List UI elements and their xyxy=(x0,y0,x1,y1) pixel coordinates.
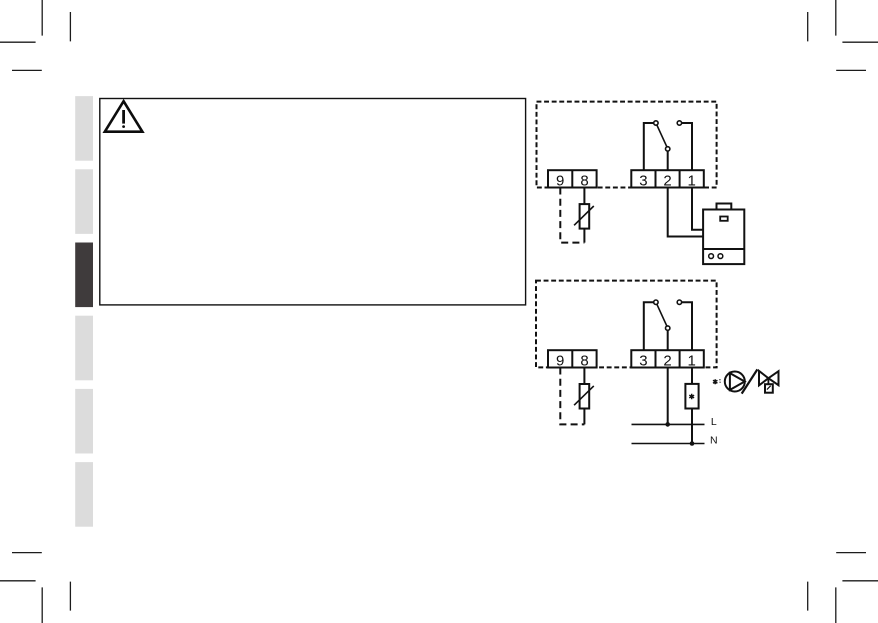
valve symbol xyxy=(759,371,779,393)
terminal block 9 8 (top) xyxy=(548,170,597,189)
junction dot on L xyxy=(665,422,670,427)
svg-text:8: 8 xyxy=(580,172,588,189)
wire contact to terminal 1 xyxy=(681,123,692,170)
terminal block 3 2 1 (top) xyxy=(631,170,704,189)
dashed wire terminal 9 to sensor return (top) xyxy=(560,188,584,243)
contact circle on terminal 3 branch xyxy=(654,121,658,125)
L line xyxy=(632,423,705,425)
wire sensor bottom (bottom) xyxy=(583,409,585,425)
boiler xyxy=(703,204,744,265)
svg-text:8: 8 xyxy=(580,352,588,369)
accessory component (asterisk box) xyxy=(685,384,698,409)
svg-text:2: 2 xyxy=(663,172,671,189)
section tab 3 (active) xyxy=(75,243,93,308)
contact circle on terminal 3 branch (bottom) xyxy=(654,300,658,304)
section tab 5 xyxy=(75,389,93,454)
svg-text:1: 1 xyxy=(688,172,696,189)
svg-text:L: L xyxy=(711,416,717,428)
relay contact pole (bottom) xyxy=(657,304,667,326)
temperature sensor NTC (bottom) xyxy=(574,384,594,409)
temperature sensor NTC (top) xyxy=(574,204,594,229)
wire terminal 1 to fuse xyxy=(691,368,693,384)
terminal block 3 2 1 (bottom) xyxy=(631,350,704,369)
section tab 2 xyxy=(75,169,93,234)
controller outline (dashed) top xyxy=(537,102,717,188)
contact circle common xyxy=(666,147,670,151)
wire sensor bottom (top) xyxy=(583,229,585,243)
junction dot on N xyxy=(690,441,695,446)
wire contact to terminal 1 (bottom) xyxy=(681,302,692,350)
section tab 1 xyxy=(75,96,93,161)
svg-text:9: 9 xyxy=(556,172,564,189)
wire terminal 2 to boiler xyxy=(668,188,703,237)
separator slash xyxy=(742,369,758,393)
svg-text:2: 2 xyxy=(663,352,671,369)
svg-text:3: 3 xyxy=(639,352,647,369)
wire terminal 1 to boiler xyxy=(692,188,703,230)
wire common contact to terminal 2 xyxy=(667,151,669,171)
contact circle on terminal 1 branch xyxy=(677,121,681,125)
relay contact pole (switch blade) xyxy=(657,125,667,147)
legend asterisk and colon xyxy=(713,379,720,384)
contact circle on terminal 1 branch (bottom) xyxy=(677,300,681,304)
svg-text:9: 9 xyxy=(556,352,564,369)
wire terminal 3 to contact (bottom) xyxy=(644,302,654,350)
N line xyxy=(632,443,705,445)
controller outline (dashed) bottom xyxy=(536,281,717,368)
section tab 4 xyxy=(75,316,93,381)
wire terminal 3 to contact xyxy=(644,123,654,170)
svg-text:1: 1 xyxy=(688,352,696,369)
dashed wire terminal 9 to sensor return (bottom) xyxy=(560,368,584,425)
section tab 6 xyxy=(75,462,93,527)
wire terminal 8 to sensor (top) xyxy=(583,188,585,205)
warning note box xyxy=(100,99,526,305)
terminal block 9 8 (bottom) xyxy=(548,350,597,369)
warning triangle icon xyxy=(105,101,143,132)
svg-text:3: 3 xyxy=(639,172,647,189)
wire fuse to N xyxy=(691,409,693,444)
wire common contact to terminal 2 (bottom) xyxy=(667,330,669,350)
wire terminal 2 to L xyxy=(667,368,669,425)
pump symbol xyxy=(725,372,745,392)
contact circle common (bottom) xyxy=(666,326,670,330)
svg-text:N: N xyxy=(710,435,718,447)
wire terminal 8 to sensor (bottom) xyxy=(583,368,585,385)
